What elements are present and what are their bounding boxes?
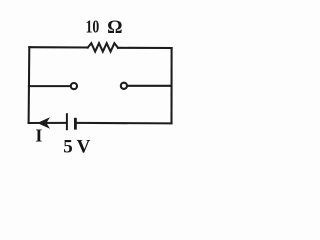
svg-text:Ω: Ω xyxy=(107,17,122,38)
node terminal circle left (open) xyxy=(71,83,77,89)
resistor R (10 ohm) zigzag xyxy=(88,43,118,51)
current arrow I (pointing left on bottom wire) xyxy=(37,117,50,129)
wire right rail xyxy=(170,48,172,123)
battery B1 long plate xyxy=(66,113,68,130)
svg-text:5: 5 xyxy=(63,136,72,157)
battery B1 short plate xyxy=(74,118,77,130)
svg-text:10: 10 xyxy=(86,17,100,37)
wire top-right segment xyxy=(118,47,172,49)
node terminal circle right (open) xyxy=(121,83,127,89)
svg-text:I: I xyxy=(35,126,42,146)
wire bottom-left segment xyxy=(29,122,66,124)
wire top-left segment xyxy=(29,46,87,48)
wire left rail xyxy=(28,47,31,123)
wire middle-left segment xyxy=(29,85,71,87)
wire bottom-right segment xyxy=(77,122,172,125)
wire middle-right segment xyxy=(127,85,171,87)
svg-text:V: V xyxy=(77,136,91,157)
